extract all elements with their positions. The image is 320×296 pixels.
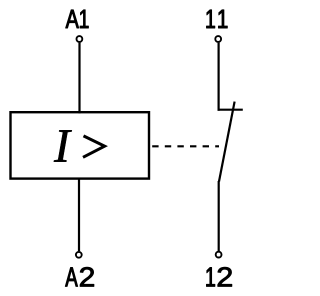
terminal 11	[215, 36, 221, 42]
wire contact to 12	[218, 181, 220, 251]
label A2	[65, 267, 94, 286]
value label I> : greater-than chevron	[83, 136, 105, 157]
value label I> (overcurrent) : letter I	[54, 130, 72, 161]
wire A1 to relay box	[78, 43, 80, 114]
label 11	[206, 10, 227, 28]
contact fixed stub	[218, 109, 243, 111]
contact moving blade (terminal 11-12)	[219, 102, 235, 182]
wire relay box to A2	[78, 179, 80, 252]
terminal A2	[76, 252, 82, 258]
label A1	[66, 10, 89, 28]
label 12	[206, 267, 231, 286]
wire 11 to contact	[218, 43, 220, 111]
mechanical link (dashed)	[152, 145, 219, 147]
overcurrent relay coil box	[11, 112, 150, 178]
terminal 12	[216, 252, 222, 258]
terminal A1	[77, 36, 83, 42]
